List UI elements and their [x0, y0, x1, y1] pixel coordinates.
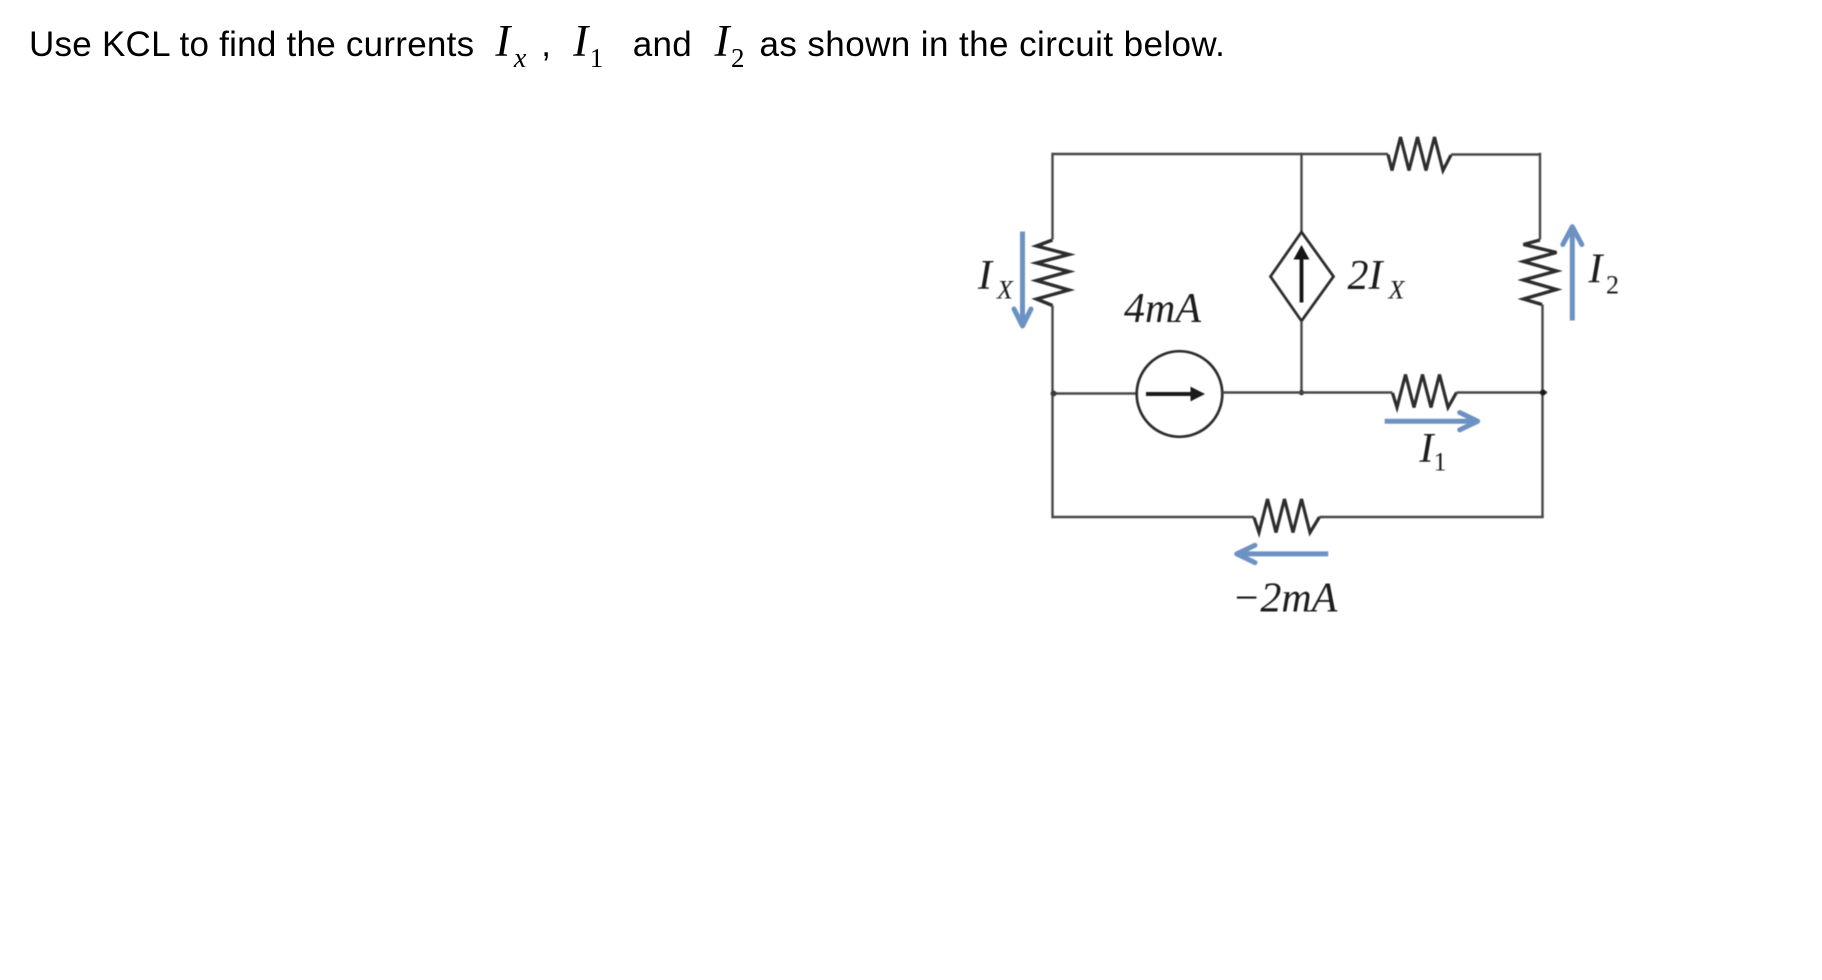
svg-text:1: 1 [1434, 448, 1447, 477]
wire middle horizontal right [1457, 391, 1548, 393]
wire middle horizontal center [1222, 391, 1392, 393]
junction node right [1540, 390, 1546, 396]
junction node left [1051, 391, 1057, 397]
wire bottom left horizontal [1053, 516, 1255, 518]
resistor R-left (Ix branch) [1037, 240, 1070, 306]
wire left lower vertical [1051, 306, 1053, 519]
wire left upper vertical [1051, 153, 1053, 240]
current source I-src circle (4mA) [1137, 351, 1223, 437]
svg-text:I: I [1588, 247, 1605, 293]
svg-text:2I: 2I [1348, 253, 1385, 299]
resistor R-top (top wire) [1388, 137, 1451, 171]
current arrow -2mA (blue, left) [1241, 551, 1329, 556]
wire middle-branch lower vertical [1300, 321, 1302, 395]
wire middle-branch upper vertical [1300, 153, 1302, 232]
current arrow I1 (blue, right) [1385, 419, 1474, 424]
svg-text:2: 2 [1606, 271, 1619, 300]
wire right upper vertical [1539, 153, 1541, 240]
current source arrow [1146, 392, 1191, 396]
resistor R-bottom (-2mA branch) [1254, 499, 1320, 533]
wire bottom right horizontal [1320, 516, 1544, 518]
dependent source U1 diamond (2Ix) [1271, 232, 1334, 321]
svg-text:4mA: 4mA [1124, 286, 1201, 332]
resistor R-mid (I1 branch) [1393, 375, 1457, 408]
resistor R-right (I2 branch) [1524, 240, 1557, 305]
wire middle horizontal left [1053, 392, 1138, 394]
wire right lower vertical [1541, 305, 1543, 518]
current arrow I2 (blue, up) [1570, 230, 1575, 321]
wire top-right horizontal [1451, 153, 1541, 155]
svg-text:I: I [977, 253, 994, 299]
junction node center [1299, 390, 1304, 395]
wire top-left horizontal [1053, 153, 1389, 155]
svg-text:X: X [996, 276, 1014, 305]
svg-text:X: X [1388, 276, 1406, 305]
title [29, 25, 1225, 65]
svg-text:−2mA: −2mA [1232, 576, 1338, 622]
dependent source arrow [1300, 258, 1304, 303]
current arrow Ix (blue, down) [1020, 232, 1025, 323]
